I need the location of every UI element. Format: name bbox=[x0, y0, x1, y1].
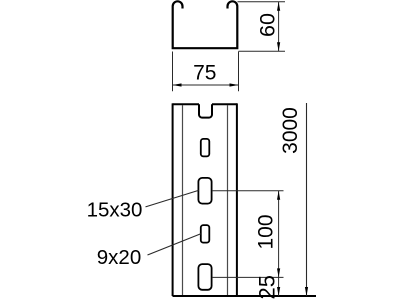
svg-text:75: 75 bbox=[193, 62, 216, 85]
svg-text:3000: 3000 bbox=[279, 107, 302, 154]
svg-text:100: 100 bbox=[255, 214, 278, 249]
svg-text:9x20: 9x20 bbox=[97, 246, 141, 269]
svg-text:60: 60 bbox=[256, 13, 280, 37]
svg-text:25: 25 bbox=[255, 275, 280, 299]
svg-text:15x30: 15x30 bbox=[87, 198, 143, 221]
